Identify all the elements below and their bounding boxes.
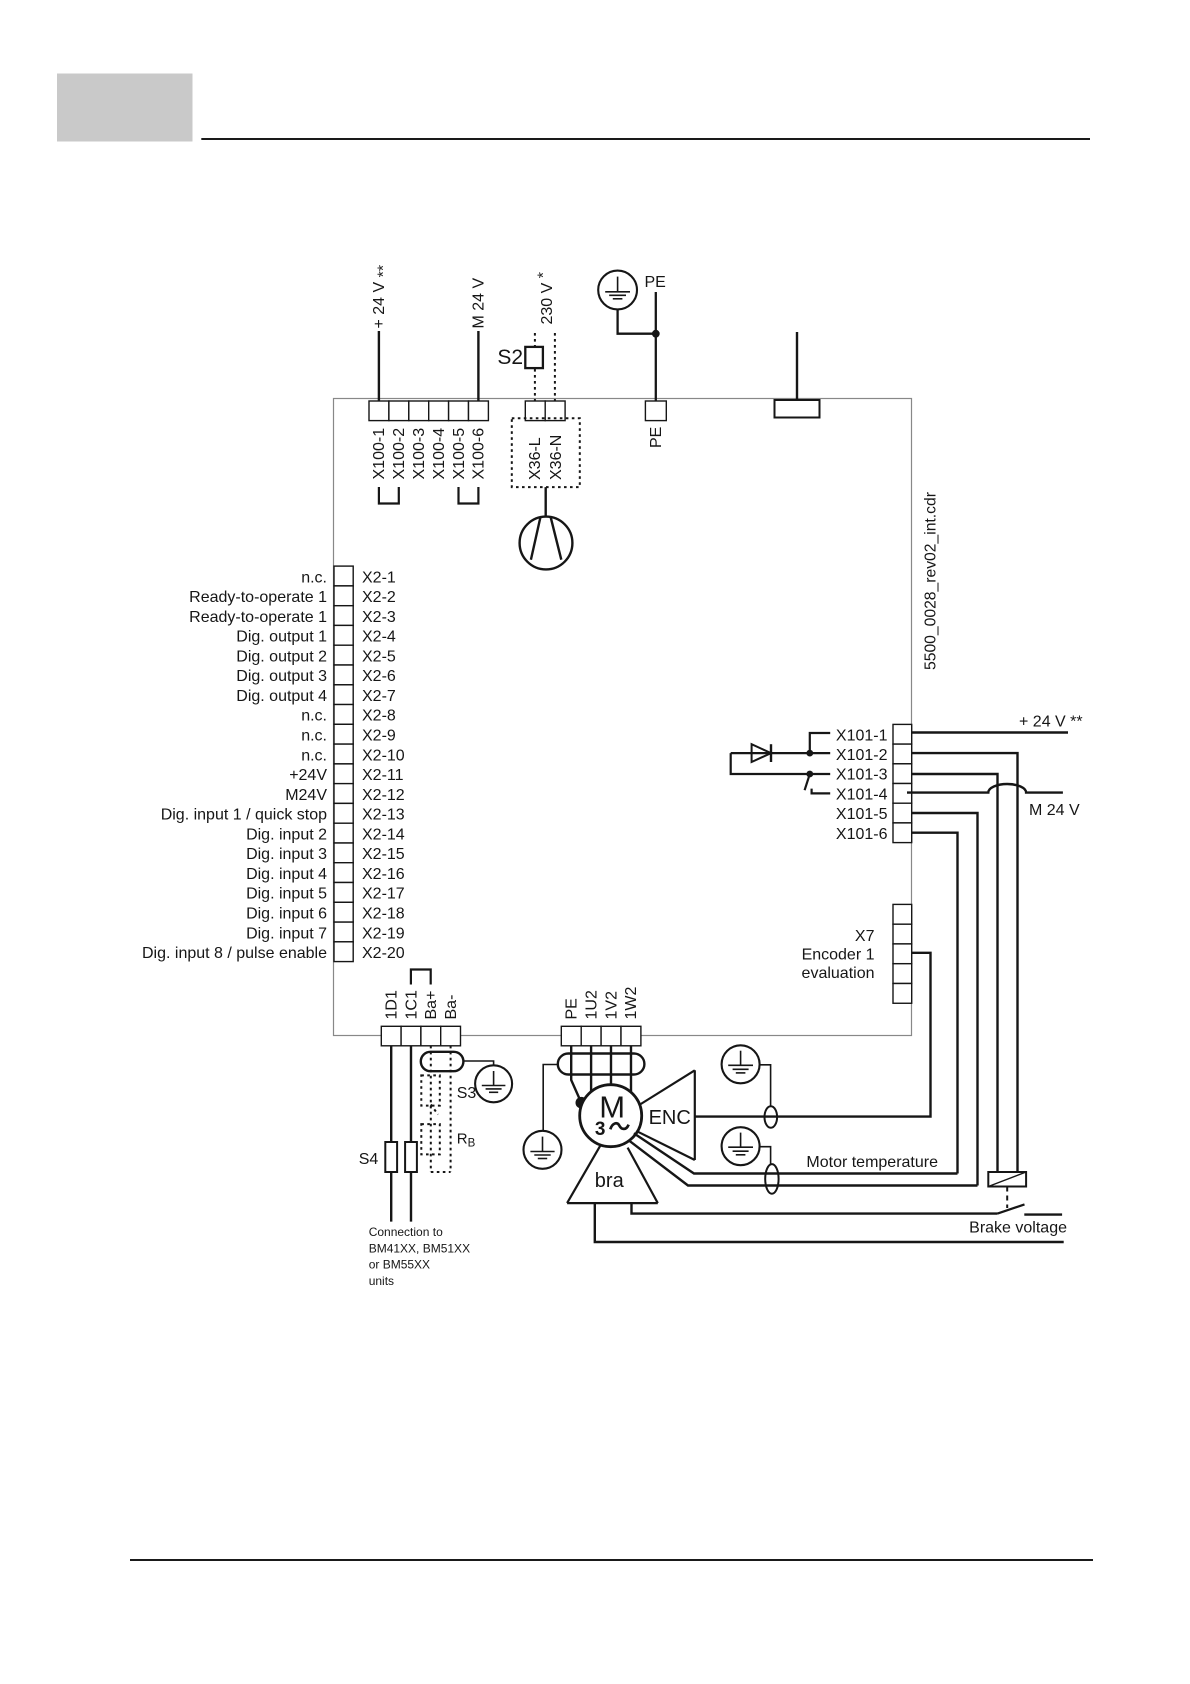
dotted wire Ba+ [430, 1046, 432, 1172]
svg-text:X101-5: X101-5 [836, 806, 888, 823]
wire X101-1 +24V [912, 731, 1068, 733]
brake bra funnel [567, 1146, 658, 1203]
wire 1D1 [390, 1046, 392, 1222]
svg-text:Dig. output 1: Dig. output 1 [236, 629, 327, 646]
svg-text:X2-14: X2-14 [362, 826, 405, 843]
svg-text:RB: RB [457, 1130, 476, 1149]
svg-text:X2-5: X2-5 [362, 648, 396, 665]
shield clamp Ba [421, 1052, 464, 1071]
tick X101-3 [810, 773, 830, 775]
svg-text:X2-4: X2-4 [362, 629, 396, 646]
tick X101-1 + link to X101-2 [810, 733, 830, 753]
dotted mains wire N [554, 333, 556, 401]
svg-text:or BM55XX: or BM55XX [369, 1258, 430, 1272]
resistor RB dotted box [421, 1124, 440, 1154]
svg-text:PE: PE [645, 274, 666, 291]
svg-text:Dig. input 7: Dig. input 7 [246, 925, 327, 942]
svg-text:+ 24 V **: + 24 V ** [1019, 714, 1083, 731]
svg-text:1U2: 1U2 [583, 990, 600, 1019]
svg-text:Dig. input 6: Dig. input 6 [246, 906, 327, 923]
svg-text:BM41XX, BM51XX: BM41XX, BM51XX [369, 1241, 470, 1255]
svg-text:X36-L: X36-L [527, 437, 544, 480]
svg-text:3: 3 [595, 1119, 606, 1140]
tick X101-4 [812, 789, 831, 794]
svg-text:evaluation: evaluation [802, 965, 875, 982]
svg-text:n.c.: n.c. [301, 728, 327, 745]
svg-text:X2-11: X2-11 [362, 767, 404, 784]
switch blade brake contact [805, 777, 809, 790]
svg-text:Dig. input 3: Dig. input 3 [246, 846, 327, 863]
svg-text:Dig. input 4: Dig. input 4 [246, 866, 327, 883]
svg-text:M 24 V: M 24 V [471, 277, 488, 328]
connector X36 terminal row [525, 401, 565, 421]
svg-text:X2-9: X2-9 [362, 728, 396, 745]
protective earth symbol (temp shield) [722, 1127, 760, 1165]
svg-text:S4: S4 [359, 1151, 379, 1168]
header rule [201, 138, 1090, 140]
svg-text:X101-4: X101-4 [836, 786, 888, 803]
fuse S4 (1D1) [385, 1142, 397, 1172]
wire motor temperature 2 (X101-5) [630, 1141, 978, 1186]
svg-text:X2-3: X2-3 [362, 609, 396, 626]
svg-text:X7: X7 [855, 928, 875, 945]
connector X2 terminal column [334, 566, 353, 961]
tick X101-2 [810, 752, 830, 754]
protective earth symbol (encoder shield) [722, 1045, 760, 1083]
switch S2 [525, 347, 543, 368]
wire earth to encoder shield [760, 1065, 771, 1107]
protective earth symbol (top) [598, 271, 637, 310]
svg-text:Dig. input 5: Dig. input 5 [246, 886, 327, 903]
node junction PE [652, 330, 660, 338]
wire M24V supply to X100-6 [477, 331, 479, 401]
connector X7 terminal column [893, 904, 912, 1003]
svg-text:1W2: 1W2 [623, 987, 640, 1020]
svg-text:Dig. input 8 / pulse enable: Dig. input 8 / pulse enable [142, 945, 327, 962]
header gray box [57, 74, 193, 142]
wire PE to motor frame [571, 1046, 581, 1103]
wire X101-4 M24V with hop [907, 784, 1063, 793]
svg-text:5500_0028_rev02_int.cdr: 5500_0028_rev02_int.cdr [923, 492, 940, 670]
svg-text:Dig. input 1 / quick stop: Dig. input 1 / quick stop [161, 807, 327, 824]
svg-text:Dig. output 3: Dig. output 3 [236, 668, 327, 685]
jumper bracket 1C1/Ba+ [411, 970, 431, 985]
svg-text:S2: S2 [497, 346, 523, 369]
dotted mains wire L [534, 333, 536, 401]
shield clamp encoder cable [765, 1106, 778, 1128]
fan symbol [520, 517, 573, 570]
svg-text:M 24 V: M 24 V [1029, 802, 1080, 819]
svg-text:X2-10: X2-10 [362, 747, 405, 764]
svg-text:PE: PE [648, 427, 665, 448]
svg-text:X2-18: X2-18 [362, 906, 405, 923]
wire diode to X101-3 [731, 753, 810, 774]
wire 1U2 [590, 1046, 592, 1092]
svg-text:Ba+: Ba+ [423, 991, 440, 1020]
wire earth to PE [618, 309, 656, 333]
dashed actuator link [1006, 1187, 1008, 1209]
connector X100 terminal row [369, 401, 488, 421]
svg-text:X101-3: X101-3 [836, 767, 888, 784]
svg-text:X2-8: X2-8 [362, 708, 396, 725]
connector 1D1/1C1/Ba+/Ba- terminal row [381, 1026, 460, 1046]
wire earth to temp shield [760, 1147, 771, 1164]
svg-text:Connection to: Connection to [369, 1225, 443, 1239]
svg-text:1C1: 1C1 [403, 990, 420, 1019]
fixed contact brake voltage [1024, 1213, 1062, 1215]
svg-text:X100-2: X100-2 [391, 428, 408, 480]
svg-text:+24V: +24V [289, 767, 327, 784]
svg-text:X100-4: X100-4 [431, 428, 448, 480]
svg-text:n.c.: n.c. [301, 708, 327, 725]
svg-text:X2-7: X2-7 [362, 688, 396, 705]
mounting stub top right [775, 400, 820, 418]
svg-text:units: units [369, 1274, 394, 1288]
connector PE/1U2/1V2/1W2 terminal row [561, 1026, 641, 1046]
fuse S4 (1C1) [405, 1142, 417, 1172]
shield clamp temperature cable [765, 1164, 778, 1194]
svg-text:X2-15: X2-15 [362, 846, 405, 863]
svg-text:X2-2: X2-2 [362, 589, 396, 606]
svg-text:X36-N: X36-N [548, 435, 565, 480]
motor M1 [580, 1085, 642, 1147]
svg-text:n.c.: n.c. [301, 747, 327, 764]
svg-text:PE: PE [564, 998, 581, 1019]
dotted wire RB bottom [431, 1171, 451, 1173]
wire to fan [545, 487, 547, 517]
wire 1W2 [630, 1046, 632, 1093]
svg-text:X2-1: X2-1 [362, 569, 396, 586]
wire 1V2 [610, 1046, 612, 1085]
wire brake 1 [632, 1203, 998, 1214]
svg-text:1D1: 1D1 [384, 990, 401, 1019]
jumper bracket X100-5/X100-6 [459, 487, 479, 504]
svg-text:bra: bra [595, 1170, 625, 1192]
svg-text:X2-19: X2-19 [362, 925, 405, 942]
dotted wire Ba- [450, 1046, 452, 1172]
wire brake 2 [595, 1203, 1064, 1242]
svg-text:X101-6: X101-6 [836, 826, 888, 843]
svg-text:X100-1: X100-1 [371, 428, 388, 480]
svg-text:X2-6: X2-6 [362, 668, 396, 685]
svg-text:X2-20: X2-20 [362, 945, 405, 962]
wire clamp to earth (motor) [543, 1065, 558, 1131]
wire motor temperature 1 (X101-6) [634, 1133, 958, 1173]
device main box [334, 399, 912, 1036]
node motor frame [576, 1097, 588, 1109]
svg-text:Dig. output 4: Dig. output 4 [236, 688, 327, 705]
wire PE down [655, 292, 657, 401]
svg-text:Dig. output 2: Dig. output 2 [236, 648, 327, 665]
jumper bracket X100-1/X100-2 [379, 487, 399, 504]
svg-text:X2-12: X2-12 [362, 787, 405, 804]
svg-text:X2-16: X2-16 [362, 866, 405, 883]
wire X101-3 brake supply [912, 774, 998, 1172]
svg-text:X100-6: X100-6 [471, 428, 488, 480]
svg-text:1V2: 1V2 [603, 991, 620, 1020]
svg-text:X101-2: X101-2 [836, 747, 888, 764]
wire +24V supply to X100-1 [378, 331, 380, 401]
svg-text:ENC: ENC [649, 1107, 691, 1129]
svg-text:+ 24 V **: + 24 V ** [371, 265, 393, 329]
encoder ENC funnel [637, 1070, 695, 1160]
wire X101-5 temp [912, 813, 978, 1186]
terminal PE (top) [645, 401, 666, 421]
svg-text:Ba-: Ba- [443, 995, 460, 1020]
svg-text:Encoder 1: Encoder 1 [802, 947, 875, 964]
wire encoder to X7 [695, 953, 931, 1117]
svg-text:Motor temperature: Motor temperature [806, 1154, 938, 1171]
svg-text:X2-17: X2-17 [362, 886, 405, 903]
wire X101-6 temp [912, 833, 958, 1174]
svg-text:Ready-to-operate 1: Ready-to-operate 1 [189, 589, 327, 606]
node diode junction [806, 750, 813, 757]
wire 1C1 [410, 1046, 412, 1222]
switch S3 dotted box [421, 1075, 440, 1105]
svg-text:X100-3: X100-3 [411, 428, 428, 480]
svg-text:M24V: M24V [285, 787, 327, 804]
svg-text:Brake voltage: Brake voltage [969, 1220, 1067, 1237]
wire X101-2 brake supply [912, 753, 1018, 1172]
svg-text:X2-13: X2-13 [362, 807, 405, 824]
svg-text:n.c.: n.c. [301, 569, 327, 586]
svg-text:Dig. input 2: Dig. input 2 [246, 826, 327, 843]
switch blade brake voltage [998, 1204, 1025, 1213]
brake coil terminal [988, 1172, 1026, 1187]
wire clamp to earth [463, 1061, 493, 1065]
svg-text:230 V *: 230 V * [535, 272, 556, 325]
svg-text:S3: S3 [457, 1085, 477, 1102]
dotted box around X36 pins [512, 418, 580, 487]
switch S3 dotted blade [431, 1105, 438, 1115]
protective earth symbol (S3) [475, 1065, 512, 1102]
footer rule [130, 1559, 1093, 1561]
svg-text:X101-1: X101-1 [836, 727, 888, 744]
node X101-3 junction [806, 771, 813, 778]
svg-text:X100-5: X100-5 [451, 428, 468, 480]
connector X101 terminal column [893, 724, 912, 842]
svg-text:Ready-to-operate 1: Ready-to-operate 1 [189, 609, 327, 626]
diode suppressor [731, 752, 810, 754]
protective earth symbol (motor shield) [524, 1131, 562, 1169]
shield clamp motor cable [558, 1054, 645, 1075]
